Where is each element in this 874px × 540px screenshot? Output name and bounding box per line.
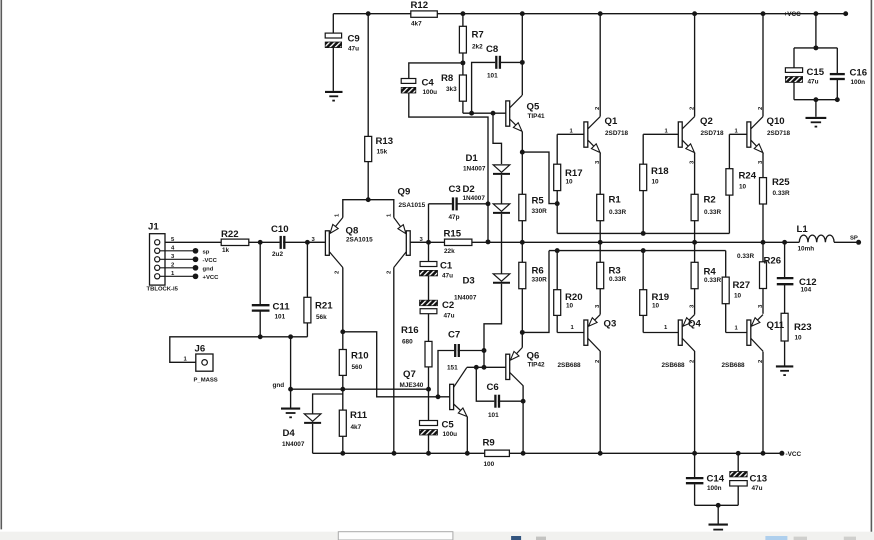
transistor Q8 bbox=[308, 218, 343, 268]
svg-text:100n: 100n bbox=[707, 485, 722, 492]
wire Q6 emitter bbox=[521, 332, 523, 347]
junction mid-left rail dots bbox=[258, 334, 263, 339]
inductor L1 bbox=[799, 235, 834, 242]
resistor R25 bbox=[760, 178, 767, 204]
transistor Q11 bbox=[747, 315, 763, 352]
connector J1 bbox=[150, 234, 198, 285]
svg-text:2u2: 2u2 bbox=[272, 251, 283, 258]
svg-text:R23: R23 bbox=[794, 322, 812, 333]
svg-text:C11: C11 bbox=[273, 302, 291, 313]
wire C3 link bbox=[429, 203, 452, 205]
svg-text:1: 1 bbox=[571, 325, 575, 331]
wire Q5 collector riser bbox=[521, 14, 523, 95]
wire gnd branch bbox=[290, 337, 292, 408]
resistor R12 bbox=[411, 11, 438, 17]
junction output rail dots bbox=[486, 239, 491, 244]
svg-text:4k7: 4k7 bbox=[351, 424, 362, 431]
wire decoupling bottom link bbox=[695, 504, 739, 506]
svg-text:1: 1 bbox=[735, 326, 739, 332]
wire Q9 base feedback node bbox=[410, 241, 444, 243]
wire Q3 collector drop bbox=[599, 351, 601, 453]
svg-text:2SB688: 2SB688 bbox=[722, 362, 746, 369]
svg-text:47u: 47u bbox=[348, 46, 359, 53]
svg-text:1: 1 bbox=[664, 325, 668, 331]
svg-text:0.33R: 0.33R bbox=[737, 253, 754, 260]
svg-text:R12: R12 bbox=[411, 0, 429, 11]
svg-text:101: 101 bbox=[275, 314, 286, 321]
svg-text:100: 100 bbox=[484, 461, 495, 468]
transistor Q7 bbox=[450, 368, 467, 417]
wire Q5 base bbox=[463, 112, 506, 114]
wire Q2 emitter R2 bbox=[694, 153, 696, 195]
resistor R9 bbox=[485, 450, 510, 456]
svg-text:3k3: 3k3 bbox=[446, 86, 457, 93]
transistor Q4 bbox=[678, 315, 694, 352]
resistor R11 bbox=[339, 410, 346, 436]
wire -VCC rail bbox=[313, 452, 782, 454]
ground near C9 bbox=[325, 92, 343, 101]
svg-text:R1: R1 bbox=[609, 195, 622, 206]
junction diff pair tail bbox=[366, 197, 371, 202]
wire Q3 base bbox=[557, 332, 584, 334]
wire C11 column bbox=[259, 242, 261, 304]
svg-text:10: 10 bbox=[566, 179, 574, 186]
svg-text:2SA1015: 2SA1015 bbox=[399, 202, 426, 209]
svg-text:15k: 15k bbox=[377, 149, 388, 156]
svg-text:0.33R: 0.33R bbox=[704, 277, 721, 284]
wire Q7 collector line bbox=[467, 366, 484, 368]
wire Q9 collector drop bbox=[393, 268, 395, 454]
wire C4 loop bbox=[409, 63, 463, 79]
junction C7 node bbox=[482, 348, 487, 353]
svg-text:R6: R6 bbox=[532, 266, 544, 277]
svg-text:-VCC: -VCC bbox=[786, 451, 802, 458]
svg-text:1: 1 bbox=[184, 357, 188, 363]
page left border bbox=[0, 0, 2, 529]
wire +VCC top rail bbox=[333, 13, 845, 15]
resistor R4 bbox=[691, 262, 698, 288]
wire R27 leads bbox=[725, 251, 727, 278]
svg-text:4k7: 4k7 bbox=[411, 20, 422, 27]
svg-text:560: 560 bbox=[352, 364, 363, 371]
svg-text:2SB688: 2SB688 bbox=[662, 362, 686, 369]
capacitor C16 bbox=[830, 73, 845, 75]
svg-text:Q2: Q2 bbox=[700, 116, 713, 127]
svg-text:C8: C8 bbox=[486, 44, 499, 55]
svg-text:10: 10 bbox=[795, 335, 803, 342]
transistor Q6 bbox=[506, 348, 523, 386]
svg-text:47u: 47u bbox=[752, 485, 763, 492]
wire driver jog bottom bbox=[522, 251, 549, 333]
transistor Q1 bbox=[584, 117, 600, 153]
svg-text:2SD718: 2SD718 bbox=[605, 130, 629, 137]
svg-text:D1: D1 bbox=[466, 153, 479, 164]
wire R4 leads bbox=[694, 242, 696, 262]
junction driver top to R17 bbox=[555, 201, 560, 206]
svg-text:R11: R11 bbox=[350, 410, 368, 421]
junction Q8 collector node bbox=[340, 329, 345, 334]
wire Q2 base bbox=[643, 133, 678, 135]
svg-text:Q4: Q4 bbox=[688, 319, 701, 330]
svg-text:22k: 22k bbox=[444, 248, 455, 255]
svg-text:R25: R25 bbox=[772, 177, 790, 188]
wire mid-left rail bbox=[170, 337, 308, 363]
svg-text:P_MASS: P_MASS bbox=[194, 378, 218, 384]
junction Q7 base node bbox=[436, 394, 441, 399]
resistor R27 bbox=[722, 277, 729, 304]
wire Q1 collector riser bbox=[599, 14, 601, 117]
svg-text:TBLOCK-I5: TBLOCK-I5 bbox=[147, 287, 179, 293]
junction decoupling bottom bbox=[716, 503, 721, 508]
svg-text:C2: C2 bbox=[442, 300, 454, 311]
junction C1 top node bbox=[426, 240, 431, 245]
wire R17 leads bbox=[556, 134, 558, 164]
svg-text:2SB688: 2SB688 bbox=[558, 362, 582, 369]
capacitor C13 bbox=[730, 472, 748, 487]
resistor R20 bbox=[554, 290, 561, 316]
wire R10 leads bbox=[342, 332, 344, 350]
wire Q4 base bbox=[643, 332, 678, 334]
svg-text:C5: C5 bbox=[442, 420, 455, 431]
wire diode chain leg bbox=[493, 113, 502, 164]
ground on gnd line bbox=[281, 409, 300, 418]
resistor R8 bbox=[459, 75, 466, 101]
svg-text:C13: C13 bbox=[750, 474, 768, 485]
wire Q2 collector riser bbox=[694, 14, 696, 117]
svg-text:47u: 47u bbox=[444, 313, 455, 320]
svg-text:R20: R20 bbox=[565, 292, 583, 303]
wire driver jog top bbox=[522, 152, 557, 204]
capacitor C10 bbox=[280, 236, 282, 249]
svg-text:Q1: Q1 bbox=[605, 116, 618, 127]
resistor R3 bbox=[597, 262, 604, 288]
svg-text:10: 10 bbox=[652, 179, 660, 186]
transistor Q9 bbox=[394, 218, 429, 268]
capacitor C5 bbox=[420, 421, 438, 436]
wire R11 leads bbox=[342, 389, 344, 410]
svg-text:0.33R: 0.33R bbox=[609, 276, 626, 283]
wire C1 C2 R16 C5 column bbox=[428, 204, 430, 262]
svg-text:+VCC: +VCC bbox=[784, 11, 802, 18]
wire D4 branch bbox=[313, 394, 343, 414]
svg-text:1N4007: 1N4007 bbox=[454, 295, 477, 302]
wire C9 branch bbox=[332, 14, 334, 33]
wire Q7 emitter drop bbox=[466, 417, 468, 454]
wire Q11 collector drop bbox=[762, 352, 764, 454]
svg-text:R5: R5 bbox=[532, 196, 545, 207]
resistor R7 bbox=[459, 26, 466, 53]
svg-text:1: 1 bbox=[665, 129, 669, 135]
diode D2 bbox=[493, 204, 510, 211]
diode D1 bbox=[493, 165, 510, 172]
junction Q5 base nodes bbox=[469, 111, 474, 116]
svg-text:2SD718: 2SD718 bbox=[767, 130, 791, 137]
svg-text:TIP42: TIP42 bbox=[528, 362, 545, 369]
wire C7 links bbox=[438, 351, 454, 397]
svg-text:J1: J1 bbox=[148, 222, 159, 233]
resistor R15 bbox=[445, 239, 472, 245]
svg-text:680: 680 bbox=[402, 339, 413, 346]
junction -VCC rail dots bbox=[340, 451, 345, 456]
junction Q5 emitter node bbox=[520, 150, 525, 155]
svg-text:0.33R: 0.33R bbox=[704, 209, 721, 216]
svg-text:R19: R19 bbox=[652, 292, 670, 303]
wire input line J1 to Q8 bbox=[160, 241, 221, 243]
svg-text:Q7: Q7 bbox=[403, 369, 416, 380]
wire gnd line bbox=[291, 388, 429, 390]
svg-text:2: 2 bbox=[387, 270, 393, 274]
junction C6 right node bbox=[521, 399, 526, 404]
svg-text:+VCC: +VCC bbox=[203, 275, 220, 281]
svg-text:10: 10 bbox=[652, 303, 660, 310]
resistor R13 bbox=[365, 136, 372, 161]
svg-text:D3: D3 bbox=[463, 276, 475, 287]
wire R26 leads bbox=[762, 242, 764, 261]
svg-text:gnd: gnd bbox=[273, 382, 285, 389]
wire output rail bbox=[472, 241, 799, 243]
transistor Q2 bbox=[678, 117, 694, 153]
resistor R21 bbox=[304, 297, 311, 323]
svg-text:L1: L1 bbox=[797, 224, 809, 235]
svg-text:1N4007: 1N4007 bbox=[463, 195, 486, 202]
resistor R5 bbox=[519, 194, 526, 220]
transistor Q10 bbox=[747, 117, 763, 153]
resistor R16 bbox=[425, 341, 432, 367]
svg-text:1: 1 bbox=[570, 129, 574, 135]
wire Q1 emitter R1 bbox=[599, 153, 601, 195]
wire R13 branch bbox=[367, 14, 369, 137]
svg-text:2: 2 bbox=[335, 270, 341, 274]
svg-text:D4: D4 bbox=[283, 428, 296, 439]
wire Q10 base bbox=[729, 133, 747, 135]
svg-text:R3: R3 bbox=[609, 266, 621, 277]
svg-text:1: 1 bbox=[735, 129, 739, 135]
ground near C15 C16 bbox=[806, 118, 827, 127]
svg-text:10mh: 10mh bbox=[798, 246, 815, 253]
wire Q4 collector drop bbox=[694, 351, 696, 453]
svg-text:101: 101 bbox=[487, 73, 498, 80]
svg-text:R22: R22 bbox=[221, 229, 239, 240]
wire C13 leads bbox=[737, 453, 739, 471]
resistor R22 bbox=[221, 239, 249, 245]
svg-text:SP: SP bbox=[850, 236, 858, 242]
capacitor C8 bbox=[495, 56, 497, 69]
transistor Q3 bbox=[584, 315, 600, 352]
svg-text:2k2: 2k2 bbox=[472, 44, 483, 51]
svg-text:2SA1015: 2SA1015 bbox=[346, 237, 373, 244]
svg-text:R26: R26 bbox=[764, 256, 782, 267]
svg-text:C9: C9 bbox=[348, 34, 360, 45]
svg-text:R15: R15 bbox=[444, 229, 462, 240]
svg-text:D2: D2 bbox=[463, 184, 475, 195]
svg-text:100n: 100n bbox=[851, 79, 866, 86]
wire upper base line bbox=[557, 232, 729, 234]
svg-text:C3: C3 bbox=[449, 184, 461, 195]
resistor R18 bbox=[640, 164, 647, 190]
svg-text:1: 1 bbox=[335, 213, 341, 217]
junction top rail dots bbox=[366, 11, 371, 16]
wire Q6 base bbox=[484, 366, 506, 368]
svg-text:1N4007: 1N4007 bbox=[463, 166, 486, 173]
capacitor C1 bbox=[420, 262, 438, 276]
wire R18 leads bbox=[642, 134, 644, 164]
resistor R26 bbox=[760, 262, 767, 289]
svg-text:2SD718: 2SD718 bbox=[701, 130, 725, 137]
svg-text:C10: C10 bbox=[271, 224, 289, 235]
svg-text:R2: R2 bbox=[704, 195, 716, 206]
wire bottom gnd stem bbox=[717, 505, 719, 524]
capacitor C14 bbox=[686, 477, 704, 479]
node SP terminal bbox=[856, 240, 861, 245]
wire lower base line bbox=[549, 250, 726, 252]
svg-text:MJE340: MJE340 bbox=[400, 382, 424, 389]
wire Q10 emitter R25 bbox=[762, 153, 764, 178]
capacitor C3 bbox=[452, 197, 454, 210]
wire R21 column bbox=[306, 242, 308, 297]
svg-text:47p: 47p bbox=[449, 214, 460, 221]
svg-text:R4: R4 bbox=[704, 267, 717, 278]
svg-text:C4: C4 bbox=[422, 78, 435, 89]
svg-text:R9: R9 bbox=[483, 438, 495, 449]
resistor R17 bbox=[554, 164, 561, 190]
svg-text:0.33R: 0.33R bbox=[609, 209, 626, 216]
svg-text:Q5: Q5 bbox=[527, 102, 540, 113]
resistor R6 bbox=[519, 262, 526, 288]
svg-text:100u: 100u bbox=[443, 431, 458, 438]
svg-text:151: 151 bbox=[447, 365, 458, 372]
svg-text:R21: R21 bbox=[315, 301, 333, 312]
svg-text:330R: 330R bbox=[532, 208, 548, 215]
resistor R1 bbox=[597, 194, 604, 220]
svg-text:Q3: Q3 bbox=[604, 319, 617, 330]
junction C8 right node bbox=[520, 60, 525, 65]
svg-text:1: 1 bbox=[387, 213, 393, 217]
junction R7 R8 C4 node bbox=[460, 60, 465, 65]
svg-text:R7: R7 bbox=[472, 30, 484, 41]
svg-text:C1: C1 bbox=[440, 261, 453, 272]
svg-text:1k: 1k bbox=[222, 247, 230, 254]
wire Q5 emitter drop bbox=[521, 132, 523, 153]
svg-text:R13: R13 bbox=[376, 136, 394, 147]
wire C8 loop bbox=[472, 62, 496, 113]
junction C10 R21 node bbox=[305, 240, 310, 245]
capacitor C4 bbox=[401, 79, 416, 94]
wire C6 links bbox=[476, 367, 494, 401]
svg-text:10: 10 bbox=[739, 184, 747, 191]
svg-text:0.33R: 0.33R bbox=[773, 190, 790, 197]
svg-text:Q8: Q8 bbox=[346, 226, 359, 237]
wire Q8 collector to Q7 base bbox=[343, 332, 450, 397]
diode D3 bbox=[493, 274, 510, 281]
wire Q8 collector drop bbox=[342, 268, 344, 332]
svg-text:10: 10 bbox=[734, 293, 742, 300]
capacitor C6 bbox=[494, 395, 496, 408]
svg-text:sp: sp bbox=[203, 250, 210, 256]
ground near R23 bbox=[776, 366, 793, 375]
wire R20 leads bbox=[556, 251, 558, 290]
status bar bbox=[0, 532, 874, 540]
wire R19 leads bbox=[642, 251, 644, 290]
svg-text:R27: R27 bbox=[733, 280, 751, 291]
junction Q7 collector line nodes bbox=[474, 365, 479, 370]
junction upper base line R18 bbox=[641, 231, 646, 236]
svg-text:47u: 47u bbox=[808, 79, 819, 86]
junction C15 C16 bracket bbox=[813, 45, 818, 50]
svg-text:Q10: Q10 bbox=[767, 116, 785, 127]
diode D4 bbox=[304, 414, 321, 421]
capacitor C7 bbox=[454, 344, 456, 357]
svg-text:C16: C16 bbox=[850, 68, 868, 79]
wire R24 leads bbox=[728, 134, 730, 168]
junction input node R22 C11 bbox=[258, 240, 263, 245]
svg-text:J6: J6 bbox=[195, 344, 206, 355]
svg-text:R16: R16 bbox=[401, 325, 419, 336]
svg-text:R24: R24 bbox=[739, 171, 757, 182]
svg-text:Q6: Q6 bbox=[527, 351, 540, 362]
wire Q1 base bbox=[557, 133, 584, 135]
svg-text:C14: C14 bbox=[707, 474, 725, 485]
wire Q6 collector drop bbox=[522, 386, 524, 454]
capacitor C15 bbox=[785, 68, 802, 83]
wire C14 leads bbox=[694, 453, 696, 477]
svg-text:TIP41: TIP41 bbox=[528, 113, 545, 120]
connector J6 bbox=[196, 354, 213, 371]
capacitor C2 bbox=[420, 300, 438, 314]
svg-text:gnd: gnd bbox=[203, 267, 214, 273]
wire C12 R23 column bbox=[784, 242, 786, 277]
wire R6 leads bbox=[521, 242, 523, 262]
junction C3 node bbox=[486, 201, 491, 206]
resistor R24 bbox=[726, 169, 733, 195]
wire R5 leads bbox=[521, 152, 523, 194]
svg-text:56k: 56k bbox=[316, 314, 327, 321]
resistor R23 bbox=[781, 313, 788, 341]
svg-text:47u: 47u bbox=[442, 273, 453, 280]
ground bottom near C14 bbox=[709, 525, 728, 530]
svg-text:R17: R17 bbox=[565, 168, 583, 179]
wire Q10 collector riser bbox=[762, 14, 764, 117]
svg-text:C7: C7 bbox=[448, 330, 460, 341]
transistor Q5 bbox=[506, 95, 523, 131]
svg-text:C6: C6 bbox=[487, 382, 499, 393]
svg-text:R10: R10 bbox=[351, 351, 369, 362]
junction lower base line dots bbox=[555, 248, 560, 253]
capacitor C9 bbox=[325, 33, 341, 48]
svg-text:101: 101 bbox=[488, 412, 499, 419]
svg-text:R8: R8 bbox=[441, 73, 454, 84]
svg-text:330R: 330R bbox=[532, 277, 548, 284]
capacitor C12 bbox=[777, 277, 794, 279]
wire diff pair top bbox=[343, 200, 394, 218]
junction gnd line dots bbox=[288, 387, 293, 392]
wire Q11 base bbox=[726, 332, 747, 334]
capacitor C11 bbox=[252, 304, 270, 306]
svg-text:C15: C15 bbox=[807, 67, 825, 78]
svg-text:1N4007: 1N4007 bbox=[282, 441, 305, 448]
page right border bbox=[870, 0, 872, 532]
wire R3 leads bbox=[599, 242, 601, 262]
junction Q6 emitter node bbox=[520, 330, 525, 335]
wire R7 R8 column bbox=[462, 14, 464, 27]
svg-text:-VCC: -VCC bbox=[203, 258, 218, 264]
svg-text:104: 104 bbox=[801, 287, 812, 294]
svg-text:100u: 100u bbox=[423, 89, 438, 96]
wire C15 C16 bracket bbox=[815, 14, 817, 48]
resistor R2 bbox=[691, 194, 698, 220]
svg-text:10: 10 bbox=[566, 303, 574, 310]
resistor R19 bbox=[640, 290, 647, 316]
svg-text:Q9: Q9 bbox=[398, 187, 411, 198]
